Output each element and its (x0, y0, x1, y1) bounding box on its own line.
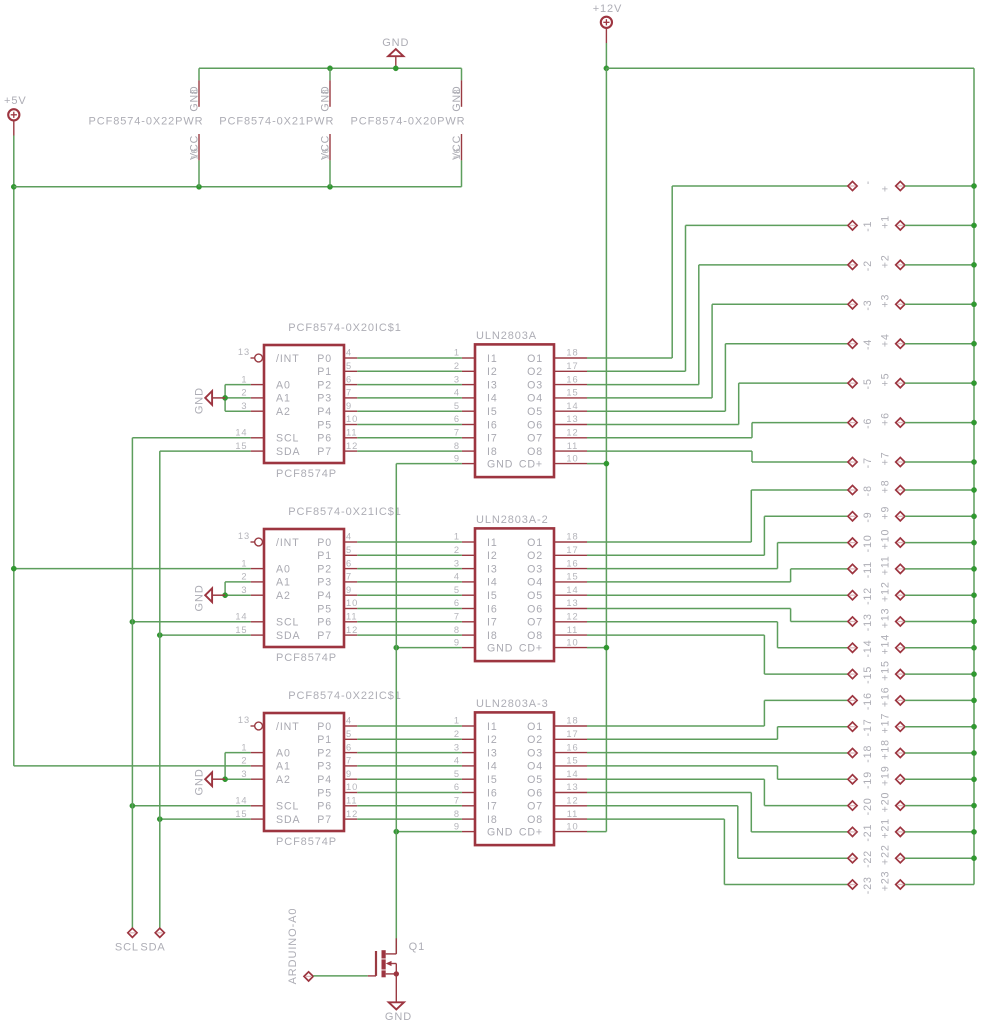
connector pin -1 / +1 row 2 (848, 215, 974, 232)
svg-text:-10: -10 (862, 534, 874, 552)
junction on +12V right bus (971, 619, 976, 624)
svg-text:7: 7 (346, 388, 352, 398)
junction on +12V right bus (971, 803, 976, 808)
svg-text:A1: A1 (276, 393, 291, 405)
svg-text:13: 13 (238, 347, 250, 357)
svg-text:+14: +14 (879, 634, 891, 655)
svg-text:P0: P0 (317, 721, 332, 733)
connector pin -/ + row 1 (848, 180, 974, 192)
svg-text:+18: +18 (879, 739, 891, 760)
wire ULN2803A-2 O4 to connector -11 (587, 569, 848, 582)
svg-text:A2: A2 (276, 774, 291, 786)
svg-text:17: 17 (566, 729, 578, 739)
wire ULN2803A-3 O2 to connector -17 (587, 727, 848, 740)
junction on +12V right bus (971, 672, 976, 677)
svg-text:SCL: SCL (276, 617, 299, 629)
svg-text:-6: -6 (862, 418, 874, 429)
connector pin -19 / +19 row 20 (848, 765, 974, 789)
wire ULN2803A O7 to connector -6 (587, 423, 848, 438)
svg-text:P6: P6 (317, 801, 332, 813)
svg-text:7: 7 (346, 572, 352, 582)
svg-text:12: 12 (566, 612, 578, 622)
connector pin -3 / +3 row 4 (848, 294, 974, 311)
svg-text:17: 17 (566, 545, 578, 555)
svg-text:-2: -2 (862, 260, 874, 271)
junction on +12V right bus (971, 645, 976, 650)
svg-text:I1: I1 (487, 353, 498, 365)
svg-text:I3: I3 (487, 747, 498, 759)
svg-text:+15: +15 (879, 660, 891, 681)
svg-text:A0: A0 (276, 747, 291, 759)
svg-text:GND: GND (193, 584, 205, 611)
junction SDA (157, 633, 162, 638)
svg-text:-: - (862, 180, 874, 184)
wire ARDUINO-A0 to Q1 gate (313, 975, 368, 977)
svg-text:I5: I5 (487, 406, 498, 418)
svg-text:SDA: SDA (276, 446, 301, 458)
svg-text:O4: O4 (527, 577, 543, 589)
svg-text:CD+: CD+ (519, 826, 543, 838)
svg-text:P1: P1 (317, 550, 332, 562)
svg-text:I8: I8 (487, 814, 498, 826)
svg-text:-19: -19 (862, 771, 874, 789)
svg-text:+22: +22 (879, 844, 891, 865)
connector pin -23 / +23 row 24 (848, 871, 974, 895)
junction GND rail at PWR2 (327, 66, 332, 71)
svg-text:+19: +19 (879, 765, 891, 786)
svg-text:A1: A1 (276, 577, 291, 589)
svg-text:2: 2 (241, 756, 247, 766)
wire SDA tap to U1 (160, 450, 251, 452)
svg-text:PCF8574-0X20PWR: PCF8574-0X20PWR (351, 116, 466, 128)
svg-text:+21: +21 (879, 818, 891, 839)
svg-text:GND: GND (382, 37, 409, 49)
wire ULN2803A-2 O1 to connector -8 (587, 490, 848, 542)
svg-text:A2: A2 (276, 406, 291, 418)
wire ULN2803A-3 GND pin to switched-ground trunk (396, 831, 462, 833)
junction on +12V right bus (971, 487, 976, 492)
wire +5V vertical trunk (13, 136, 15, 766)
junction on +12V right bus (971, 459, 976, 464)
svg-text:10: 10 (566, 821, 578, 831)
connector pin -10 / +10 row 11 (848, 529, 974, 553)
svg-text:P7: P7 (317, 446, 332, 458)
junction on +12V right bus (971, 262, 976, 267)
svg-text:11: 11 (567, 441, 578, 451)
svg-text:-13: -13 (862, 613, 874, 631)
svg-text:PCF8574P: PCF8574P (276, 468, 337, 480)
svg-text:+7: +7 (879, 451, 891, 465)
connector pin -6 / +6 row 7 (848, 412, 974, 429)
svg-text:16: 16 (190, 147, 200, 159)
wire A0-A2 of U3 tied (225, 753, 251, 780)
svg-text:/INT: /INT (276, 353, 300, 365)
svg-text:P4: P4 (317, 590, 332, 602)
svg-text:14: 14 (566, 585, 578, 595)
svg-text:5: 5 (346, 729, 352, 739)
IC U1 PCF8574-0X20IC$1 (PCF8574P) (235, 322, 401, 480)
wire ULN2803A CD+ to +12V bus (587, 463, 606, 465)
wire SCL tap to U2 (132, 621, 250, 623)
svg-text:+9: +9 (879, 506, 891, 520)
svg-text:16: 16 (321, 147, 331, 159)
junction switched-ground trunk (394, 829, 399, 834)
svg-text:O4: O4 (527, 761, 543, 773)
svg-text:4: 4 (346, 532, 352, 542)
junction VCC PWR2 (327, 184, 332, 189)
svg-text:12: 12 (566, 428, 578, 438)
svg-text:5: 5 (454, 585, 460, 595)
power gate PCF8574-0X20PWR (GND pin 8 / VCC pin 16) (351, 68, 466, 187)
svg-text:8: 8 (454, 625, 460, 635)
svg-text:7: 7 (454, 796, 460, 806)
junction on +12V right bus (971, 698, 976, 703)
svg-text:O7: O7 (527, 801, 543, 813)
svg-text:6: 6 (346, 742, 352, 752)
connector pin ARDUINO-A0 (287, 908, 313, 985)
svg-text:I7: I7 (487, 617, 498, 629)
svg-text:P3: P3 (317, 393, 332, 405)
wire ULN2803A-2 GND pin to switched-ground trunk (396, 647, 462, 649)
wire SDA tap to U3 (160, 818, 251, 820)
svg-text:6: 6 (454, 414, 460, 424)
svg-text:GND: GND (487, 458, 513, 470)
junction on +12V right bus (971, 183, 976, 188)
power gate PCF8574-0X22PWR (GND pin 8 / VCC pin 16) (89, 68, 204, 187)
wire +12V center bus vertical (605, 68, 607, 831)
svg-text:O7: O7 (527, 433, 543, 445)
power gate PCF8574-0X21PWR (GND pin 8 / VCC pin 16) (219, 68, 334, 187)
svg-text:O6: O6 (527, 787, 543, 799)
svg-text:I2: I2 (487, 734, 498, 746)
wires P0-P7 of U1 to I1-I8 of ULN2803A (357, 358, 462, 451)
wire ULN2803A-2 O2 to connector -9 (587, 516, 848, 555)
svg-text:6: 6 (454, 782, 460, 792)
svg-text:+: + (879, 185, 891, 192)
svg-text:P2: P2 (317, 379, 332, 391)
svg-text:1: 1 (241, 558, 247, 568)
svg-text:9: 9 (346, 401, 352, 411)
svg-text:3: 3 (454, 558, 460, 568)
wire ULN2803A-2 CD+ to +12V bus (587, 647, 606, 649)
svg-text:8: 8 (454, 809, 460, 819)
svg-text:O5: O5 (527, 774, 543, 786)
wire ULN2803A-3 CD+ to +12V bus (587, 831, 606, 833)
svg-text:9: 9 (346, 769, 352, 779)
svg-text:O1: O1 (527, 537, 543, 549)
svg-text:O5: O5 (527, 406, 543, 418)
wire ULN2803A O4 to connector -3 (587, 304, 848, 398)
junction SCL (130, 619, 135, 624)
svg-text:2: 2 (241, 388, 247, 398)
svg-text:8: 8 (452, 88, 462, 94)
junction on +12V right bus (971, 420, 976, 425)
svg-text:I6: I6 (487, 603, 498, 615)
svg-text:PCF8574-0X22PWR: PCF8574-0X22PWR (89, 116, 204, 128)
svg-text:2: 2 (454, 545, 460, 555)
svg-text:12: 12 (566, 796, 578, 806)
junction GND rail at GND symbol (393, 66, 398, 71)
wire ULN2803A-3 O8 to connector -23 (587, 819, 848, 884)
svg-text:3: 3 (454, 374, 460, 384)
svg-text:ULN2803A-3: ULN2803A-3 (476, 698, 549, 710)
svg-text:9: 9 (454, 637, 460, 647)
svg-text:P1: P1 (317, 366, 332, 378)
svg-text:O5: O5 (527, 590, 543, 602)
connector pin -11 / +11 row 12 (848, 555, 974, 578)
svg-text:PCF8574P: PCF8574P (276, 836, 337, 848)
svg-text:-12: -12 (862, 587, 874, 605)
wire SDA tap to U2 (160, 634, 251, 636)
svg-text:18: 18 (566, 348, 578, 358)
wire SCL trunk vertical (131, 438, 133, 928)
power symbol GND top (382, 37, 409, 68)
svg-text:10: 10 (346, 782, 358, 792)
wire GND rail top (199, 67, 462, 69)
svg-text:P4: P4 (317, 406, 332, 418)
junction on +12V right bus (971, 724, 976, 729)
wire +12V right bus vertical (973, 68, 975, 884)
svg-text:I4: I4 (487, 393, 498, 405)
svg-text:15: 15 (235, 625, 247, 635)
wire ULN2803A-2 O7 to connector -14 (587, 622, 848, 648)
svg-text:SCL: SCL (276, 801, 299, 813)
junction +5V at VCC rail (11, 184, 16, 189)
svg-text:11: 11 (346, 796, 357, 806)
svg-text:I5: I5 (487, 774, 498, 786)
connector pin SDA (140, 928, 165, 953)
svg-text:A0: A0 (276, 379, 291, 391)
svg-text:5: 5 (346, 361, 352, 371)
svg-text:14: 14 (566, 401, 578, 411)
wire SCL tap to U1 (132, 437, 250, 439)
junction switched-ground trunk (394, 645, 399, 650)
svg-text:+8: +8 (879, 479, 891, 493)
svg-text:12: 12 (346, 625, 358, 635)
wire ULN2803A O3 to connector -2 (587, 265, 848, 385)
svg-text:13: 13 (566, 414, 578, 424)
junction on +12V right bus (971, 750, 976, 755)
svg-text:O7: O7 (527, 617, 543, 629)
connector pin -20 / +20 row 21 (848, 792, 974, 816)
IC ULN2803A-2 (454, 514, 587, 661)
svg-text:/INT: /INT (276, 721, 300, 733)
svg-text:PCF8574-0X22IC$1: PCF8574-0X22IC$1 (288, 690, 401, 702)
svg-text:+16: +16 (879, 686, 891, 707)
svg-text:P3: P3 (317, 761, 332, 773)
wire +5V rail to VCC pins (14, 186, 462, 188)
wire ULN2803A-2 O3 to connector -10 (587, 543, 848, 569)
svg-text:P5: P5 (317, 419, 332, 431)
svg-text:+23: +23 (879, 871, 891, 892)
svg-text:18: 18 (566, 532, 578, 542)
svg-text:P7: P7 (317, 630, 332, 642)
junction on +12V right bus (971, 302, 976, 307)
svg-text:I2: I2 (487, 366, 498, 378)
svg-text:4: 4 (346, 716, 352, 726)
svg-text:3: 3 (241, 769, 247, 779)
wire ULN2803A O6 to connector -5 (587, 383, 848, 424)
svg-text:/INT: /INT (276, 537, 300, 549)
svg-text:13: 13 (566, 598, 578, 608)
svg-text:13: 13 (238, 715, 250, 725)
svg-text:P6: P6 (317, 433, 332, 445)
svg-text:13: 13 (566, 782, 578, 792)
svg-text:I6: I6 (487, 787, 498, 799)
svg-text:+3: +3 (879, 294, 891, 308)
connector pin -5 / +5 row 6 (848, 373, 974, 390)
svg-text:14: 14 (566, 769, 578, 779)
svg-text:GND: GND (487, 826, 513, 838)
svg-text:PCF8574P: PCF8574P (276, 652, 337, 664)
junction +5V trunk at U2 A0 (11, 566, 16, 571)
svg-text:8: 8 (321, 88, 331, 94)
svg-text:1: 1 (241, 742, 247, 752)
svg-text:5: 5 (346, 545, 352, 555)
svg-text:10: 10 (566, 637, 578, 647)
svg-text:12: 12 (346, 809, 358, 819)
svg-text:GND: GND (193, 768, 205, 795)
svg-text:9: 9 (454, 821, 460, 831)
svg-text:P2: P2 (317, 563, 332, 575)
svg-text:-3: -3 (862, 299, 874, 310)
junction on +12V right bus (971, 566, 976, 571)
svg-text:O4: O4 (527, 393, 543, 405)
IC ULN2803A (454, 330, 587, 477)
svg-text:11: 11 (567, 625, 578, 635)
svg-text:O3: O3 (527, 747, 543, 759)
junction on +12V right bus (971, 341, 976, 346)
connector pin -14 / +14 row 15 (848, 634, 974, 658)
connector pin -2 / +2 row 3 (848, 254, 974, 271)
wire ULN2803A-3 O3 to connector -18 (587, 752, 848, 754)
svg-text:9: 9 (454, 453, 460, 463)
connector pin -17 / +17 row 18 (848, 713, 974, 737)
svg-text:Q1: Q1 (409, 941, 425, 953)
svg-text:I2: I2 (487, 550, 498, 562)
svg-text:I7: I7 (487, 433, 498, 445)
wire ULN2803A O8 to connector -7 (587, 451, 848, 462)
wire ULN2803A-3 O5 to connector -20 (587, 779, 848, 805)
svg-text:2: 2 (454, 729, 460, 739)
svg-text:A2: A2 (276, 590, 291, 602)
junction on +12V right bus (971, 514, 976, 519)
svg-text:CD+: CD+ (519, 642, 543, 654)
junction on +12V right bus (971, 829, 976, 834)
svg-text:8: 8 (454, 441, 460, 451)
svg-text:O8: O8 (527, 446, 543, 458)
svg-text:O6: O6 (527, 603, 543, 615)
svg-text:O1: O1 (527, 721, 543, 733)
wire ULN2803A-3 O1 to connector -16 (587, 700, 848, 726)
svg-text:P3: P3 (317, 577, 332, 589)
svg-text:ULN2803A: ULN2803A (476, 330, 537, 342)
svg-text:O1: O1 (527, 353, 543, 365)
svg-text:I4: I4 (487, 577, 498, 589)
junction on +12V right bus (971, 381, 976, 386)
svg-text:15: 15 (566, 572, 578, 582)
svg-text:5: 5 (454, 769, 460, 779)
svg-text:O2: O2 (527, 366, 543, 378)
svg-text:+6: +6 (879, 412, 891, 426)
svg-text:13: 13 (238, 531, 250, 541)
svg-text:I4: I4 (487, 761, 498, 773)
svg-text:10: 10 (346, 598, 358, 608)
svg-text:16: 16 (566, 742, 578, 752)
junction CD+ on +12V bus (604, 461, 609, 466)
svg-text:-15: -15 (862, 666, 874, 684)
svg-text:3: 3 (241, 585, 247, 595)
svg-text:P0: P0 (317, 353, 332, 365)
power symbol +12V (593, 3, 623, 43)
svg-text:5: 5 (454, 401, 460, 411)
wire switched-ground trunk vertical (ULN GND pins to Q1 drain) (395, 464, 397, 954)
wires P0-P7 of U3 to I1-I8 of ULN2803A-3 (357, 726, 462, 819)
connector pin SCL (115, 928, 139, 953)
wire ULN2803A-2 O6 to connector -13 (587, 609, 848, 622)
junction SCL (130, 803, 135, 808)
connector pin -15 / +15 row 16 (848, 660, 974, 684)
junction GND at U2 A2 (223, 593, 228, 598)
wire ULN2803A-3 O4 to connector -19 (587, 766, 848, 779)
svg-text:P5: P5 (317, 787, 332, 799)
wire SDA trunk vertical (159, 451, 161, 928)
IC U2 PCF8574-0X21IC$1 (PCF8574P) (235, 506, 401, 664)
svg-text:-11: -11 (862, 561, 874, 578)
svg-text:14: 14 (235, 428, 247, 438)
connector pin -9 / +9 row 10 (848, 506, 974, 523)
svg-text:O3: O3 (527, 379, 543, 391)
svg-text:I7: I7 (487, 801, 498, 813)
svg-text:15: 15 (566, 388, 578, 398)
svg-text:17: 17 (566, 361, 578, 371)
svg-text:GND: GND (385, 1011, 412, 1023)
svg-text:-14: -14 (862, 639, 874, 657)
svg-text:GND: GND (487, 642, 513, 654)
svg-text:11: 11 (346, 428, 357, 438)
svg-text:A1: A1 (276, 761, 291, 773)
svg-text:11: 11 (567, 809, 578, 819)
wire ULN2803A-2 O8 to connector -15 (587, 635, 848, 674)
connector pin -7 / +7 row 8 (848, 451, 974, 468)
svg-text:+1: +1 (879, 215, 891, 229)
svg-text:P2: P2 (317, 747, 332, 759)
svg-text:2: 2 (454, 361, 460, 371)
svg-text:10: 10 (566, 453, 578, 463)
svg-text:3: 3 (241, 401, 247, 411)
svg-text:4: 4 (346, 348, 352, 358)
svg-text:6: 6 (346, 558, 352, 568)
svg-text:+10: +10 (879, 529, 891, 550)
junction +12V rail T (604, 66, 609, 71)
svg-text:O8: O8 (527, 630, 543, 642)
wire A1-A2 of U2 tied (225, 582, 251, 595)
junction GND at U3 A2 (223, 777, 228, 782)
svg-text:6: 6 (346, 374, 352, 384)
svg-text:SCL: SCL (115, 941, 139, 953)
svg-text:6: 6 (454, 598, 460, 608)
wire ULN2803A GND pin to switched-ground trunk (396, 463, 462, 465)
transistor Q1 (N-MOSFET) (368, 938, 425, 1001)
svg-text:15: 15 (235, 809, 247, 819)
svg-text:15: 15 (235, 441, 247, 451)
svg-text:O6: O6 (527, 419, 543, 431)
svg-text:1: 1 (454, 348, 460, 358)
svg-text:GND: GND (193, 387, 205, 414)
svg-text:SDA: SDA (140, 941, 165, 953)
svg-text:14: 14 (235, 796, 247, 806)
IC ULN2803A-3 (454, 698, 587, 845)
